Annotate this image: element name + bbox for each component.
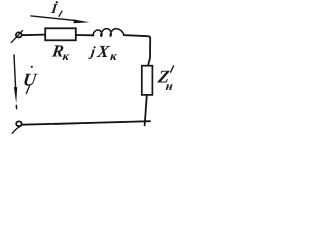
wire top-left to resistor xyxy=(22,34,45,37)
bottom wire retrace stroke xyxy=(55,123,112,125)
terminal bottom-left xyxy=(12,121,21,133)
current arrow I1 line xyxy=(31,16,76,21)
wire resistor to inductor xyxy=(76,34,94,36)
svg-text:X: X xyxy=(95,42,111,61)
svg-text:j: j xyxy=(88,44,96,60)
voltage arrow U1 head xyxy=(14,87,17,103)
svg-text:U: U xyxy=(22,69,39,89)
label Rк xyxy=(50,42,72,64)
terminal top-left xyxy=(11,30,22,42)
svg-text:к: к xyxy=(109,49,118,63)
wire load box to bottom wire xyxy=(145,95,147,125)
svg-text:н: н xyxy=(165,79,174,93)
voltage arrow tip dash xyxy=(15,105,17,108)
label jXк xyxy=(87,42,119,63)
svg-text:к: к xyxy=(62,49,71,63)
subscript 1 of I1 xyxy=(59,11,62,16)
svg-text:I: I xyxy=(49,1,58,17)
label Z'н xyxy=(155,66,175,92)
label I1 with dot xyxy=(49,1,58,17)
bottom wire xyxy=(22,121,150,125)
voltage arrow U1 line xyxy=(14,55,16,88)
resistor Rк xyxy=(45,28,76,40)
inductor jXк xyxy=(93,29,124,37)
load box Z'н xyxy=(142,66,153,95)
subscript 1 of U1 xyxy=(26,85,30,94)
label U1 with dot xyxy=(22,69,39,89)
dot above U xyxy=(31,66,33,68)
wire inductor to top-right corner and down xyxy=(124,35,151,66)
dot above I xyxy=(56,1,58,3)
current arrow I1 head xyxy=(74,20,90,24)
prime mark of Z'н xyxy=(171,66,174,72)
